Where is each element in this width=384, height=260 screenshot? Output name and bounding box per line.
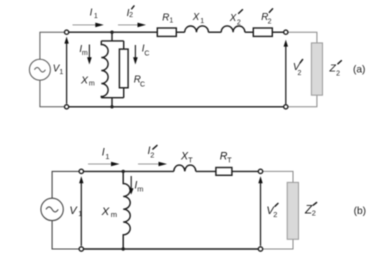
svg-text:m: m	[82, 50, 88, 57]
svg-text:X: X	[192, 12, 200, 23]
svg-text:(b): (b)	[354, 206, 366, 217]
svg-text:I: I	[102, 147, 105, 159]
svg-text:I: I	[90, 8, 93, 19]
svg-text:1: 1	[59, 69, 63, 76]
svg-text:1: 1	[94, 13, 98, 20]
svg-text:m: m	[111, 210, 117, 219]
svg-text:C: C	[140, 81, 145, 88]
svg-text:V: V	[69, 205, 78, 217]
svg-text:2: 2	[237, 20, 241, 27]
svg-text:2: 2	[273, 210, 277, 219]
svg-text:2: 2	[298, 70, 302, 77]
svg-text:R: R	[162, 12, 169, 23]
svg-text:2: 2	[268, 19, 272, 26]
svg-text:2: 2	[336, 70, 340, 77]
svg-text:T: T	[227, 155, 232, 164]
svg-text:X: X	[229, 13, 237, 24]
svg-text:1: 1	[200, 18, 204, 25]
svg-text:T: T	[188, 155, 193, 164]
svg-text:2: 2	[150, 150, 154, 159]
svg-text:1: 1	[105, 152, 109, 161]
svg-text:C: C	[144, 51, 149, 58]
svg-text:2: 2	[312, 209, 316, 218]
svg-text:1: 1	[78, 209, 82, 218]
svg-text:2: 2	[129, 12, 133, 19]
svg-text:X: X	[80, 74, 89, 86]
svg-text:X: X	[101, 206, 110, 218]
svg-text:(a): (a)	[353, 64, 365, 75]
svg-text:1: 1	[169, 18, 173, 25]
svg-text:m: m	[137, 185, 143, 194]
svg-text:m: m	[89, 81, 95, 88]
